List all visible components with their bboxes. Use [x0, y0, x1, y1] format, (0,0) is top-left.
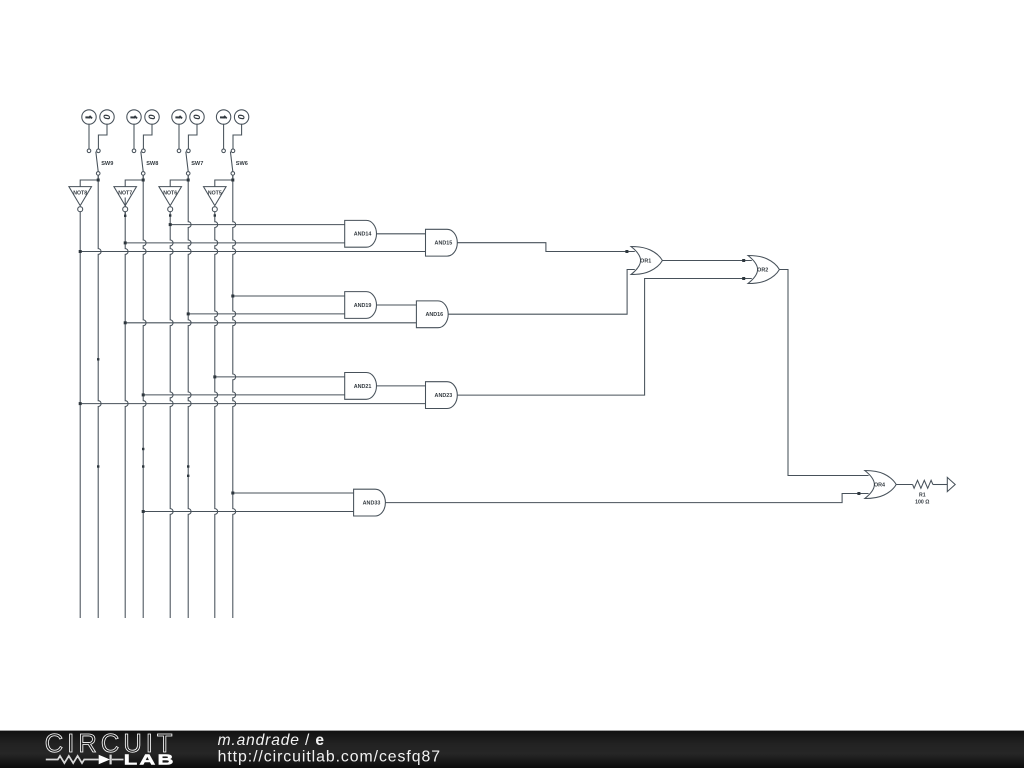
svg-text:0: 0 [102, 114, 112, 120]
svg-text:SW8: SW8 [146, 161, 158, 167]
svg-text:NOT5: NOT5 [208, 191, 222, 197]
svg-text:OR1: OR1 [640, 258, 651, 264]
svg-text:OR2: OR2 [757, 267, 768, 273]
svg-text:0: 0 [237, 114, 247, 120]
svg-text:SW6: SW6 [236, 161, 248, 167]
svg-text:AND19: AND19 [354, 303, 372, 309]
svg-text:http://circuitlab.com/cesfq87: http://circuitlab.com/cesfq87 [218, 749, 441, 766]
svg-text:NOT7: NOT7 [118, 191, 132, 197]
svg-text:SW9: SW9 [101, 161, 113, 167]
svg-text:AND33: AND33 [363, 501, 381, 507]
svg-text:R1: R1 [919, 492, 926, 498]
svg-text:NOT6: NOT6 [163, 191, 177, 197]
svg-text:AND14: AND14 [354, 232, 372, 238]
svg-text:0: 0 [192, 114, 202, 120]
svg-text:NOT8: NOT8 [73, 191, 87, 197]
svg-text:OR4: OR4 [874, 482, 885, 488]
svg-text:m.andrade / e: m.andrade / e [218, 732, 325, 749]
svg-text:0: 0 [147, 114, 157, 120]
svg-text:LAB: LAB [124, 751, 176, 768]
svg-text:AND23: AND23 [435, 393, 453, 399]
svg-text:AND21: AND21 [354, 384, 372, 390]
svg-text:AND15: AND15 [435, 241, 453, 247]
svg-text:100 Ω: 100 Ω [915, 500, 929, 506]
svg-text:AND16: AND16 [425, 312, 443, 318]
svg-text:SW7: SW7 [191, 161, 203, 167]
